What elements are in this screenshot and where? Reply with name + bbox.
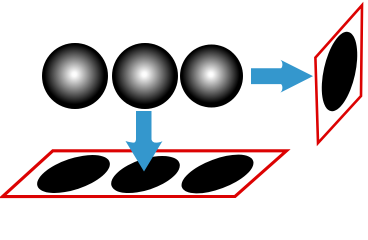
right projection plane (red parallelogram) (315, 5, 362, 143)
sphere 3 (180, 45, 243, 108)
bottom projection plane (red parallelogram) (3, 151, 287, 197)
sphere 1 (42, 43, 108, 109)
down arrow (blue) (126, 111, 163, 172)
sphere 2 (112, 43, 178, 109)
right shadow ellipse (315, 29, 363, 115)
shadow ellipse 1 (33, 147, 115, 200)
shadow ellipse 2 (107, 148, 185, 200)
shadow ellipse 3 (177, 147, 259, 202)
right arrow (blue) (251, 60, 313, 93)
